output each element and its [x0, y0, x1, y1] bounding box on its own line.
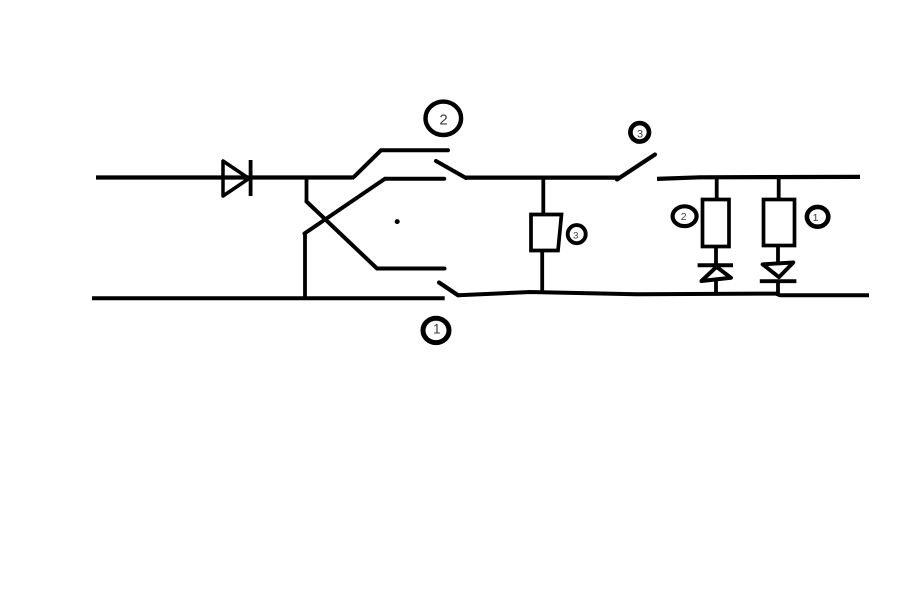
svg-text:1: 1 [813, 212, 819, 224]
wire top-left [96, 175, 354, 179]
diode D1 lead lower [776, 282, 780, 296]
label circle 3 (switch S3) [630, 123, 649, 142]
wire top-middle [465, 176, 619, 180]
wire bottom-right [458, 292, 869, 295]
diode D2 cathode bar [698, 263, 733, 267]
svg-text:2: 2 [439, 112, 447, 129]
label circle 1 (resistor R1) [807, 207, 828, 227]
resistor R1 lead upper [777, 177, 781, 200]
crossover diagonal A [307, 202, 445, 269]
node dot [395, 219, 400, 224]
diode D1 cathode bar [760, 279, 797, 283]
diode D2 triangle [702, 267, 732, 281]
resistor R1 body [764, 200, 795, 246]
switch S2 contact [436, 161, 466, 178]
resistor R2 lead middle [714, 247, 718, 267]
crossover vertical lower [303, 234, 307, 298]
switch S1 contact [439, 283, 458, 296]
label circle 2 (switch S2) [426, 102, 462, 135]
svg-text:1: 1 [433, 322, 441, 337]
diode D1 triangle [763, 263, 794, 278]
switch S2 blade [354, 150, 448, 177]
resistor R2 lead upper [715, 177, 719, 200]
resistor R2 body [703, 200, 730, 247]
svg-text:3: 3 [573, 230, 578, 241]
resistor R1 lead middle [776, 246, 780, 264]
crossover diagonal B [305, 179, 445, 234]
label circle 2 (resistor R2) [673, 206, 697, 226]
diode D2 lead lower [714, 280, 718, 294]
svg-text:2: 2 [681, 211, 687, 223]
resistor R3 lead lower [540, 251, 544, 293]
switch S3 blade [617, 155, 655, 180]
label circle 3 (resistor R3) [568, 225, 586, 243]
wire top-right [657, 177, 860, 179]
label circle 1 (switch S1) [423, 318, 449, 342]
diode D-left [223, 160, 251, 196]
crossover vertical upper [305, 176, 309, 202]
resistor R3 body [531, 215, 562, 251]
resistor R3 lead upper [541, 177, 545, 214]
wire bottom-left [92, 296, 445, 300]
svg-text:3: 3 [637, 128, 643, 140]
